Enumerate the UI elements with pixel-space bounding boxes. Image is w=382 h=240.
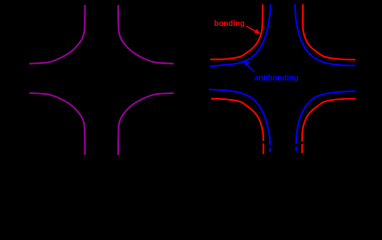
svg-text:antibonding: antibonding <box>254 73 299 82</box>
svg-text:bonding: bonding <box>214 19 245 28</box>
